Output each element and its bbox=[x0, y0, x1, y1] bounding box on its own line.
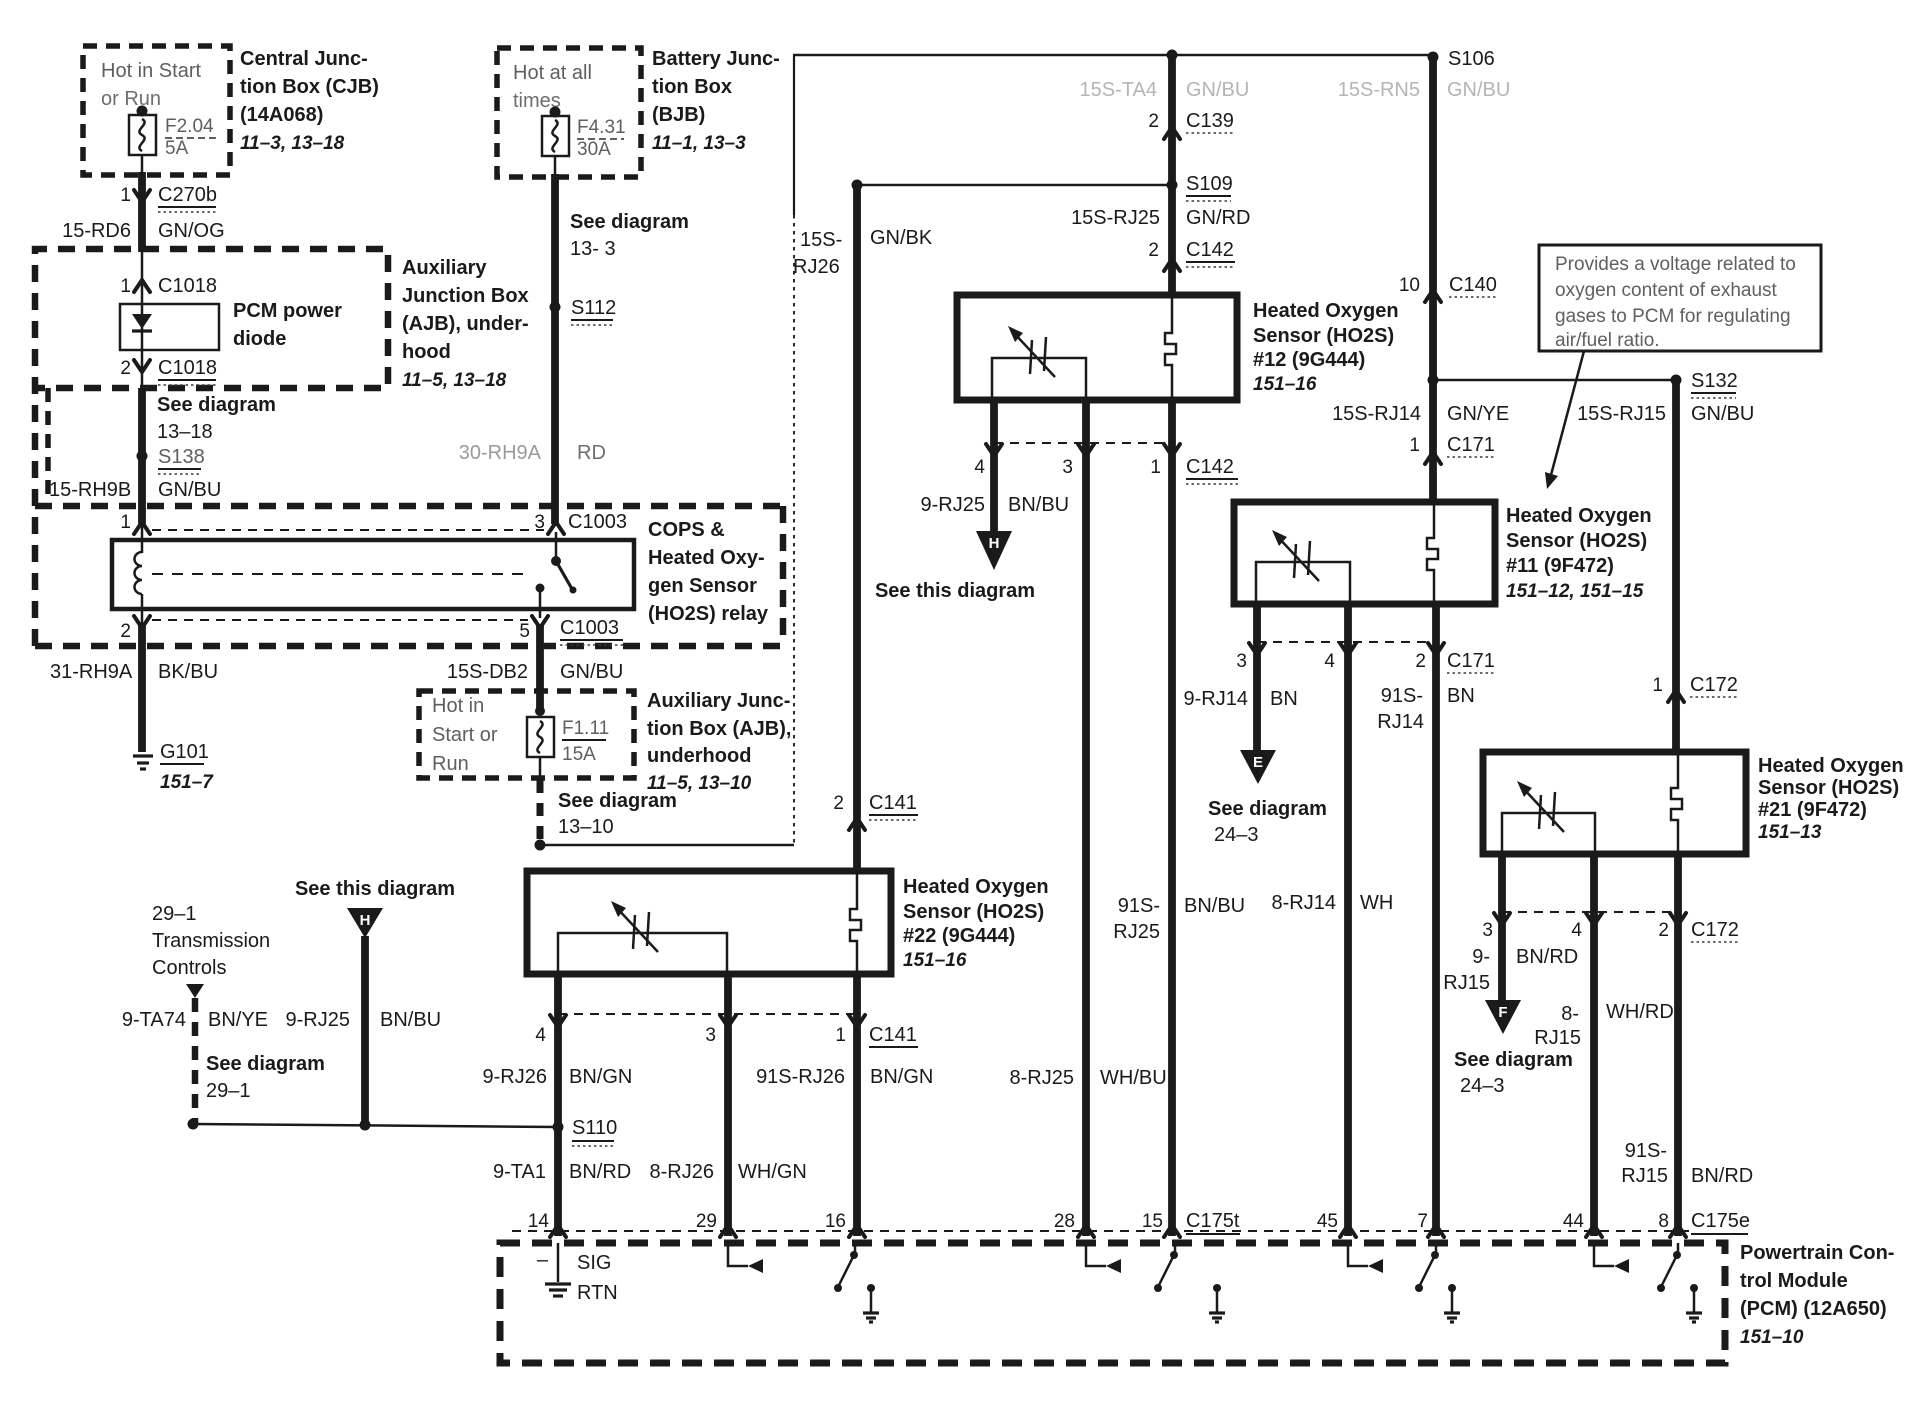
splice S132 bbox=[1428, 370, 1738, 398]
svg-text:Sensor (HO2S): Sensor (HO2S) bbox=[903, 901, 1044, 923]
svg-text:11–1, 13–3: 11–1, 13–3 bbox=[652, 133, 746, 154]
svg-text:S132: S132 bbox=[1691, 370, 1738, 392]
svg-text:Provides a voltage related to: Provides a voltage related to bbox=[1555, 254, 1796, 275]
#21 label bbox=[1758, 755, 1904, 843]
svg-text:5A: 5A bbox=[165, 138, 189, 159]
svg-text:24–3: 24–3 bbox=[1460, 1075, 1505, 1097]
wire labels 15S-RJ14 GN/YE / 15S-RJ15 GN/BU bbox=[1332, 403, 1754, 425]
svg-text:151–12, 151–15: 151–12, 151–15 bbox=[1506, 581, 1644, 602]
svg-text:15S-RJ14: 15S-RJ14 bbox=[1332, 403, 1421, 425]
svg-text:30A: 30A bbox=[577, 139, 611, 160]
faint labels 15S-TA4 GN/BU bbox=[1080, 79, 1250, 101]
relay switch bbox=[536, 532, 577, 618]
svg-text:2: 2 bbox=[1148, 240, 1159, 261]
svg-text:1: 1 bbox=[1409, 435, 1420, 456]
transmission controls note bbox=[152, 903, 270, 979]
svg-text:10: 10 bbox=[1399, 275, 1420, 296]
wire labels 9-RJ14 BN / 91S-RJ14 BN bbox=[1184, 685, 1475, 733]
relay enclosure (dashed) bbox=[35, 506, 783, 646]
svg-text:S106: S106 bbox=[1448, 48, 1495, 70]
svg-text:RJ14: RJ14 bbox=[1377, 711, 1424, 733]
svg-text:GN/YE: GN/YE bbox=[1447, 403, 1509, 425]
wire labels 91S-RJ25 BN/BU bbox=[1113, 895, 1245, 943]
svg-text:WH/GN: WH/GN bbox=[738, 1161, 807, 1183]
#22 heater zigzag bbox=[850, 871, 861, 974]
svg-text:WH/RD: WH/RD bbox=[1606, 1001, 1674, 1023]
svg-text:GN/BK: GN/BK bbox=[870, 227, 933, 249]
wire F1.11 to junction dot bbox=[535, 757, 546, 851]
svg-text:13–10: 13–10 bbox=[558, 816, 614, 838]
svg-text:See diagram: See diagram bbox=[558, 790, 677, 812]
H arrow (#12 pin 4) bbox=[976, 531, 1012, 570]
svg-text:diode: diode bbox=[233, 328, 286, 350]
connector C139 bbox=[1148, 110, 1233, 139]
svg-text:See diagram: See diagram bbox=[570, 211, 689, 233]
svg-text:#22 (9G444): #22 (9G444) bbox=[903, 925, 1015, 947]
svg-text:3: 3 bbox=[705, 1025, 716, 1046]
svg-text:9-: 9- bbox=[1472, 946, 1490, 968]
svg-text:PCM power: PCM power bbox=[233, 300, 342, 322]
relay actuator dashed line bbox=[152, 573, 528, 575]
svg-text:C175e: C175e bbox=[1691, 1210, 1750, 1232]
svg-text:#21 (9F472): #21 (9F472) bbox=[1758, 799, 1867, 821]
ground G101 bbox=[133, 741, 214, 793]
svg-text:(14A068): (14A068) bbox=[240, 104, 323, 126]
svg-text:15A: 15A bbox=[562, 744, 596, 765]
svg-text:45: 45 bbox=[1317, 1211, 1338, 1232]
wire labels 8-RJ25 WH/BU bbox=[1010, 1067, 1167, 1089]
svg-text:C141: C141 bbox=[869, 792, 917, 814]
svg-text:91S-RJ26: 91S-RJ26 bbox=[756, 1066, 845, 1088]
svg-text:15S-TA4: 15S-TA4 bbox=[1080, 79, 1157, 101]
#12 label bbox=[1253, 300, 1399, 395]
svg-text:4: 4 bbox=[974, 457, 985, 478]
PCM label bbox=[1740, 1242, 1894, 1348]
svg-text:2: 2 bbox=[833, 793, 844, 814]
wire 15S-DB2 GN/BU bbox=[447, 624, 624, 712]
svg-text:Battery Junc-: Battery Junc- bbox=[652, 48, 780, 70]
splice S110 bbox=[188, 1117, 618, 1146]
svg-text:Heated Oxygen: Heated Oxygen bbox=[903, 876, 1049, 898]
svg-text:oxygen content of exhaust: oxygen content of exhaust bbox=[1555, 280, 1778, 301]
svg-text:15S-: 15S- bbox=[800, 229, 842, 251]
svg-text:SIG: SIG bbox=[577, 1252, 611, 1274]
wire 9-RJ25 BN/BU bbox=[921, 494, 1070, 516]
wire labels 8-RJ15 WH/RD bbox=[1534, 1001, 1673, 1049]
connector C141 row bbox=[535, 1014, 918, 1047]
svg-text:tion Box (CJB): tion Box (CJB) bbox=[240, 76, 379, 98]
#22 label bbox=[903, 876, 1049, 971]
See diagram 29-1 bbox=[206, 1053, 325, 1102]
svg-text:C172: C172 bbox=[1690, 674, 1738, 696]
svg-text:Transmission: Transmission bbox=[152, 930, 270, 952]
fuse F2.04 5A bbox=[129, 106, 216, 160]
svg-text:gases to PCM for regulating: gases to PCM for regulating bbox=[1555, 306, 1791, 327]
svg-text:RD: RD bbox=[577, 442, 606, 464]
connector C171 (top) bbox=[1409, 434, 1494, 464]
svg-text:1: 1 bbox=[1150, 457, 1161, 478]
svg-text:or Run: or Run bbox=[101, 88, 161, 110]
svg-text:Hot in: Hot in bbox=[432, 695, 484, 717]
connector C171 row bbox=[1236, 642, 1494, 673]
svg-text:BN: BN bbox=[1270, 688, 1298, 710]
svg-text:9-RJ25: 9-RJ25 bbox=[286, 1009, 350, 1031]
svg-text:1: 1 bbox=[1652, 675, 1663, 696]
AJB label bbox=[402, 257, 529, 391]
svg-text:151–10: 151–10 bbox=[1740, 1327, 1804, 1348]
svg-text:Controls: Controls bbox=[152, 957, 226, 979]
PCM pin 7 internal switch and ground bbox=[1415, 1243, 1460, 1322]
svg-text:3: 3 bbox=[1236, 651, 1247, 672]
svg-text:Hot in Start: Hot in Start bbox=[101, 60, 201, 82]
CJB box (Hot in Start or Run) bbox=[83, 46, 230, 175]
svg-text:S138: S138 bbox=[158, 446, 205, 468]
svg-text:16: 16 bbox=[825, 1211, 846, 1232]
PCM pin 28 internal arrow bbox=[1086, 1243, 1121, 1273]
svg-text:24–3: 24–3 bbox=[1214, 824, 1259, 846]
H arrow (left, from this diagram) bbox=[295, 878, 455, 1125]
svg-text:S109: S109 bbox=[1186, 173, 1233, 195]
wire 15-RD6 GN/OG bbox=[62, 220, 225, 242]
svg-text:(BJB): (BJB) bbox=[652, 104, 705, 126]
CJB label bbox=[240, 48, 379, 154]
svg-text:151–13: 151–13 bbox=[1758, 822, 1822, 843]
svg-text:RTN: RTN bbox=[577, 1282, 618, 1304]
svg-text:Auxiliary: Auxiliary bbox=[402, 257, 487, 279]
svg-text:91S-: 91S- bbox=[1625, 1140, 1667, 1162]
wire labels 91S-RJ15 BN/RD bbox=[1621, 1140, 1753, 1187]
svg-text:See this diagram: See this diagram bbox=[875, 580, 1035, 602]
wire 31-RH9A BK/BU bbox=[50, 624, 218, 752]
svg-text:9-RJ26: 9-RJ26 bbox=[483, 1066, 547, 1088]
svg-text:F4.31: F4.31 bbox=[577, 117, 626, 138]
E arrow (#11 pin 3) bbox=[1240, 750, 1276, 784]
svg-text:GN/BU: GN/BU bbox=[1691, 403, 1754, 425]
BJB label bbox=[652, 48, 780, 154]
svg-text:3: 3 bbox=[1062, 457, 1073, 478]
svg-text:1: 1 bbox=[120, 276, 131, 297]
connector C172 (top) bbox=[1652, 674, 1737, 702]
svg-text:5: 5 bbox=[519, 621, 530, 642]
svg-text:BN/RD: BN/RD bbox=[569, 1161, 631, 1183]
svg-text:C140: C140 bbox=[1449, 274, 1497, 296]
svg-text:151–16: 151–16 bbox=[1253, 374, 1317, 395]
connector C270b bbox=[120, 184, 217, 212]
wire labels 9-RJ26 BN/GN / 91S-RJ26 BN/GN bbox=[483, 1066, 934, 1088]
PCM pin 44 internal arrow bbox=[1594, 1243, 1629, 1273]
svg-text:15-RD6: 15-RD6 bbox=[62, 220, 131, 242]
svg-text:GN/BU: GN/BU bbox=[1186, 79, 1249, 101]
svg-text:9-TA74: 9-TA74 bbox=[122, 1009, 186, 1031]
svg-text:7: 7 bbox=[1417, 1211, 1428, 1232]
wire 30-RH9A RD bbox=[459, 442, 606, 464]
svg-text:9-RJ14: 9-RJ14 bbox=[1184, 688, 1248, 710]
svg-text:underhood: underhood bbox=[647, 745, 751, 767]
svg-text:Hot at all: Hot at all bbox=[513, 62, 592, 84]
svg-text:151–7: 151–7 bbox=[160, 772, 214, 793]
svg-text:C171: C171 bbox=[1447, 650, 1495, 672]
splice S112 bbox=[550, 297, 617, 325]
svg-text:15: 15 bbox=[1142, 1211, 1163, 1232]
svg-text:13–18: 13–18 bbox=[157, 421, 213, 443]
svg-text:Sensor (HO2S): Sensor (HO2S) bbox=[1253, 325, 1394, 347]
splice S138 bbox=[137, 388, 205, 524]
svg-text:GN/BU: GN/BU bbox=[158, 479, 221, 501]
svg-text:tion Box: tion Box bbox=[652, 76, 732, 98]
See diagram 24-3 (E) bbox=[1208, 798, 1327, 846]
svg-text:C142: C142 bbox=[1186, 239, 1234, 261]
#11 label bbox=[1506, 505, 1652, 602]
HO2S #11 box bbox=[1234, 502, 1495, 604]
svg-text:S110: S110 bbox=[572, 1117, 617, 1139]
svg-text:air/fuel ratio.: air/fuel ratio. bbox=[1555, 330, 1660, 351]
svg-text:4: 4 bbox=[535, 1025, 546, 1046]
svg-text:15S-DB2: 15S-DB2 bbox=[447, 661, 528, 683]
svg-text:gen Sensor: gen Sensor bbox=[648, 575, 757, 597]
PCM box bbox=[500, 1243, 1725, 1363]
PCM pin 29 internal arrow bbox=[728, 1243, 763, 1273]
connector C1018 pin 1 bbox=[120, 252, 217, 304]
svg-text:8-RJ26: 8-RJ26 bbox=[650, 1161, 714, 1183]
See diagram 13-3 bbox=[570, 211, 689, 260]
svg-text:C171: C171 bbox=[1447, 434, 1495, 456]
svg-text:31-RH9A: 31-RH9A bbox=[50, 661, 133, 683]
svg-text:C1003: C1003 bbox=[568, 511, 627, 533]
splice S109 bbox=[852, 173, 1233, 201]
fuse F4.31 30A bbox=[542, 107, 626, 161]
PCM connector row bbox=[512, 1225, 1692, 1237]
PCM pin numbers bbox=[528, 1210, 1750, 1234]
relay coil bbox=[135, 540, 143, 609]
svg-text:#11 (9F472): #11 (9F472) bbox=[1506, 555, 1614, 577]
svg-text:91S-: 91S- bbox=[1118, 895, 1160, 917]
wire S132 down to #21 bbox=[1672, 380, 1680, 754]
connector C1003 top row bbox=[120, 511, 627, 540]
svg-text:8-RJ25: 8-RJ25 bbox=[1010, 1067, 1074, 1089]
svg-text:G101: G101 bbox=[160, 741, 209, 763]
svg-text:Powertrain Con-: Powertrain Con- bbox=[1740, 1242, 1894, 1264]
#12 pin wires bbox=[990, 400, 998, 534]
svg-text:BN/GN: BN/GN bbox=[569, 1066, 632, 1088]
svg-text:Heated Oxygen: Heated Oxygen bbox=[1758, 755, 1904, 777]
BJB box (Hot at all times) bbox=[497, 48, 641, 177]
wire 9-RJ25 BN/BU (H wire) bbox=[286, 1009, 442, 1031]
svg-text:See diagram: See diagram bbox=[206, 1053, 325, 1075]
#21 heater zigzag bbox=[1671, 752, 1682, 854]
svg-text:GN/BU: GN/BU bbox=[560, 661, 623, 683]
svg-text:COPS &: COPS & bbox=[648, 519, 725, 541]
svg-text:BN/BU: BN/BU bbox=[1008, 494, 1069, 516]
svg-text:See diagram: See diagram bbox=[1454, 1049, 1573, 1071]
svg-text:Auxiliary Junc-: Auxiliary Junc- bbox=[647, 690, 790, 712]
svg-text:C1018: C1018 bbox=[158, 357, 217, 379]
svg-text:2: 2 bbox=[120, 358, 131, 379]
svg-text:WH/BU: WH/BU bbox=[1100, 1067, 1167, 1089]
svg-text:See diagram: See diagram bbox=[1208, 798, 1327, 820]
svg-text:GN/BU: GN/BU bbox=[1447, 79, 1510, 101]
PCM pin 16 internal switch and ground bbox=[834, 1243, 879, 1322]
svg-text:9-RJ25: 9-RJ25 bbox=[921, 494, 985, 516]
svg-text:C1018: C1018 bbox=[158, 275, 217, 297]
svg-text:BN: BN bbox=[1447, 685, 1475, 707]
#21 sensing element bbox=[1502, 781, 1595, 854]
HO2S relay body bbox=[112, 540, 634, 609]
svg-text:3: 3 bbox=[1482, 920, 1493, 941]
svg-text:BN/GN: BN/GN bbox=[870, 1066, 933, 1088]
PCM pin 8 internal switch and ground bbox=[1657, 1243, 1702, 1322]
svg-text:44: 44 bbox=[1563, 1211, 1585, 1232]
svg-text:C172: C172 bbox=[1691, 919, 1739, 941]
svg-text:1: 1 bbox=[835, 1025, 846, 1046]
svg-text:29–1: 29–1 bbox=[152, 903, 197, 925]
HO2S #21 box bbox=[1483, 752, 1746, 854]
#11 heater zigzag bbox=[1427, 502, 1438, 604]
wire F4.31 down to relay pin 3 bbox=[554, 156, 557, 177]
svg-text:2: 2 bbox=[120, 621, 131, 642]
connector C141 (top) bbox=[833, 792, 918, 830]
svg-text:F2.04: F2.04 bbox=[165, 116, 214, 137]
relay label bbox=[648, 519, 769, 625]
svg-text:Heated Oxygen: Heated Oxygen bbox=[1506, 505, 1652, 527]
svg-text:H: H bbox=[989, 535, 1000, 552]
svg-text:Run: Run bbox=[432, 753, 469, 775]
wire 9-TA74 BN/YE (dashed) bbox=[122, 998, 268, 1124]
svg-text:91S-: 91S- bbox=[1381, 685, 1423, 707]
svg-text:2: 2 bbox=[1148, 111, 1159, 132]
top bus wire bbox=[793, 50, 1439, 63]
wire from S106 down bbox=[1429, 57, 1437, 503]
svg-text:E: E bbox=[1253, 754, 1263, 771]
svg-text:(PCM) (12A650): (PCM) (12A650) bbox=[1740, 1298, 1887, 1320]
svg-text:8-RJ14: 8-RJ14 bbox=[1272, 892, 1336, 914]
#22 pin wires bbox=[554, 974, 562, 1236]
svg-text:RJ25: RJ25 bbox=[1113, 921, 1160, 943]
#11 sensing element bbox=[1256, 530, 1350, 604]
svg-text:trol Module: trol Module bbox=[1740, 1270, 1848, 1292]
F arrow (#21 pin 3) bbox=[1485, 1000, 1521, 1034]
svg-text:4: 4 bbox=[1324, 651, 1335, 672]
svg-text:30-RH9A: 30-RH9A bbox=[459, 442, 542, 464]
svg-text:WH: WH bbox=[1360, 892, 1393, 914]
faint labels 15S-RN5 GN/BU bbox=[1338, 79, 1511, 101]
PCM pin 14 SIG RTN ground bbox=[537, 1243, 618, 1304]
HO2S #12 box bbox=[957, 295, 1237, 400]
svg-text:Sensor (HO2S): Sensor (HO2S) bbox=[1506, 530, 1647, 552]
connector C172 row bbox=[1482, 912, 1738, 942]
transmission arrow bbox=[186, 984, 204, 998]
svg-text:Junction Box: Junction Box bbox=[402, 285, 529, 307]
svg-text:151–16: 151–16 bbox=[903, 950, 967, 971]
PCM pin 15 internal switch and ground bbox=[1154, 1243, 1225, 1322]
svg-text:11–3, 13–18: 11–3, 13–18 bbox=[240, 133, 345, 154]
notes box bbox=[1539, 245, 1821, 351]
See diagram 13-18 bbox=[157, 394, 276, 443]
svg-text:C142: C142 bbox=[1186, 456, 1234, 478]
svg-text:Heated Oxygen: Heated Oxygen bbox=[1253, 300, 1399, 322]
svg-text:H: H bbox=[360, 912, 371, 929]
wire link to top bus bbox=[540, 55, 794, 845]
AJB box (PCM power diode) bbox=[35, 249, 388, 646]
#12 heater zigzag bbox=[1165, 295, 1176, 400]
svg-text:1: 1 bbox=[120, 185, 131, 206]
svg-text:15-RH9B: 15-RH9B bbox=[49, 479, 131, 501]
connector C140 bbox=[1399, 274, 1498, 302]
svg-text:9-TA1: 9-TA1 bbox=[493, 1161, 546, 1183]
svg-text:#12 (9G444): #12 (9G444) bbox=[1253, 349, 1365, 371]
See diagram 13-10 bbox=[558, 790, 677, 838]
wire 15S-RJ25 GN/RD bbox=[1071, 207, 1250, 229]
svg-text:Start or: Start or bbox=[432, 724, 498, 746]
#22 sensing element bbox=[558, 901, 727, 974]
wire labels 9-RJ15 BN/RD bbox=[1443, 946, 1578, 994]
#11 pin wires bbox=[1253, 604, 1261, 754]
svg-text:2: 2 bbox=[1658, 920, 1669, 941]
AJB2 box (Hot in Start or Run) bbox=[419, 691, 634, 778]
svg-text:4: 4 bbox=[1571, 920, 1582, 941]
svg-text:BN/RD: BN/RD bbox=[1516, 946, 1578, 968]
svg-text:11–5, 13–18: 11–5, 13–18 bbox=[402, 370, 507, 391]
#12 sensing element bbox=[992, 326, 1086, 400]
svg-text:8-: 8- bbox=[1561, 1003, 1579, 1025]
svg-text:See diagram: See diagram bbox=[157, 394, 276, 416]
svg-text:F: F bbox=[1498, 1004, 1507, 1021]
svg-text:BN/RD: BN/RD bbox=[1691, 1165, 1753, 1187]
svg-text:C175t: C175t bbox=[1186, 1210, 1240, 1232]
wire labels 9-TA1 BN/RD / 8-RJ26 WH/GN bbox=[493, 1161, 807, 1183]
PCM pin 45 internal arrow bbox=[1348, 1243, 1383, 1273]
svg-text:tion Box (AJB),: tion Box (AJB), bbox=[647, 718, 791, 740]
PCM power diode bbox=[120, 300, 342, 350]
svg-text:29: 29 bbox=[696, 1211, 717, 1232]
svg-text:(AJB), under-: (AJB), under- bbox=[402, 313, 529, 335]
svg-text:GN/RD: GN/RD bbox=[1186, 207, 1250, 229]
svg-text:hood: hood bbox=[402, 341, 451, 363]
svg-text:F1.11: F1.11 bbox=[562, 718, 609, 739]
svg-text:29–1: 29–1 bbox=[206, 1080, 251, 1102]
svg-text:13- 3: 13- 3 bbox=[570, 238, 616, 260]
svg-text:RJ15: RJ15 bbox=[1443, 972, 1490, 994]
svg-text:C270b: C270b bbox=[158, 184, 217, 206]
svg-text:BN/BU: BN/BU bbox=[380, 1009, 441, 1031]
svg-text:14: 14 bbox=[528, 1211, 550, 1232]
svg-text:15S-RJ25: 15S-RJ25 bbox=[1071, 207, 1160, 229]
wire from bus to #12 bbox=[1168, 55, 1176, 297]
fuse F1.11 15A bbox=[527, 706, 609, 765]
wire 15-RH9B GN/BU bbox=[49, 479, 221, 501]
AJB2 label bbox=[647, 690, 791, 794]
svg-text:BN/BU: BN/BU bbox=[1184, 895, 1245, 917]
svg-text:C139: C139 bbox=[1186, 110, 1234, 132]
connector C1003 bottom row bbox=[120, 609, 623, 645]
svg-text:C1003: C1003 bbox=[560, 617, 619, 639]
wire labels 8-RJ14 WH bbox=[1272, 892, 1394, 914]
See diagram 24-3 (F) bbox=[1454, 1049, 1573, 1097]
svg-text:RJ15: RJ15 bbox=[1621, 1165, 1668, 1187]
notes leader arrow bbox=[1545, 351, 1584, 489]
svg-text:Sensor (HO2S): Sensor (HO2S) bbox=[1758, 777, 1899, 799]
connector C142 row bbox=[974, 443, 1238, 484]
svg-text:15S-RJ15: 15S-RJ15 bbox=[1577, 403, 1666, 425]
svg-text:28: 28 bbox=[1054, 1211, 1075, 1232]
svg-text:(HO2S) relay: (HO2S) relay bbox=[648, 603, 769, 625]
svg-text:Heated Oxy-: Heated Oxy- bbox=[648, 547, 765, 569]
wire fuse to C270b bbox=[141, 155, 144, 175]
svg-text:RJ15: RJ15 bbox=[1534, 1027, 1581, 1049]
svg-text:15S-RN5: 15S-RN5 bbox=[1338, 79, 1420, 101]
svg-text:RJ26: RJ26 bbox=[793, 256, 840, 278]
svg-text:–: – bbox=[537, 1249, 549, 1271]
HO2S #22 box bbox=[527, 871, 891, 974]
